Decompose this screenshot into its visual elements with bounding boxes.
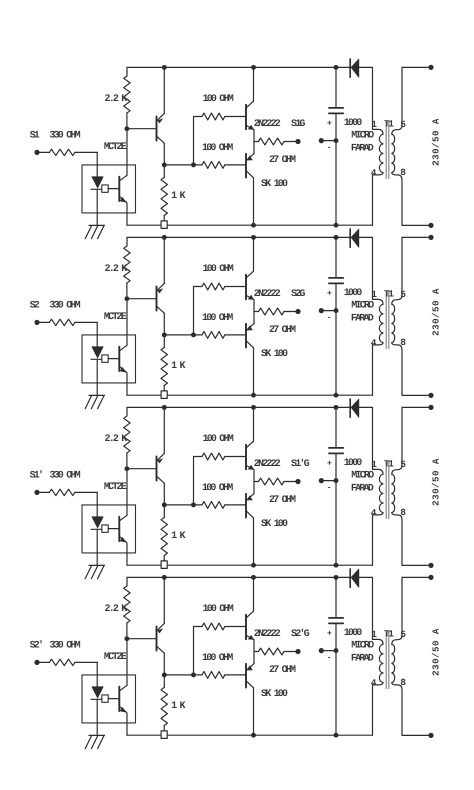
wire: base node to driver transistor row 1 bbox=[127, 128, 156, 130]
junction: 100 OHM branch split row 1 bbox=[191, 162, 196, 167]
transformer T1 row 3 bbox=[371, 407, 406, 565]
wire: emitter join 2N2222/SK100 row 4 bbox=[253, 640, 255, 664]
node: driver collector / 1K / 100 OHM row 2 bbox=[162, 332, 167, 337]
node: secondary bottom terminal row 3 bbox=[428, 563, 433, 568]
svg-text:FARAD: FARAD bbox=[351, 143, 374, 154]
wire: secondary pin 8 stub to terminal row 3 bbox=[402, 564, 429, 566]
node: capacitor negative tap terminal row 1 bbox=[334, 138, 339, 143]
wire: opto collector to node row 1 bbox=[126, 129, 128, 176]
wire: emitter join 2N2222/SK100 row 3 bbox=[253, 470, 255, 494]
svg-text:100 OHM: 100 OHM bbox=[202, 653, 233, 664]
wire: driver emitter to top rail row 1 bbox=[163, 67, 165, 113]
wire: +V top rail row 2 bbox=[127, 236, 350, 238]
ground (LED cathode) row 1 bbox=[85, 225, 104, 238]
wire: common bottom rail row 1 bbox=[127, 224, 373, 226]
svg-text:1000: 1000 bbox=[344, 458, 363, 469]
transistor Q4a PNP driver row 4 bbox=[157, 623, 165, 653]
resistor 100 OHM (lower) row 2 bbox=[202, 332, 225, 339]
junction: top rail / driver emitter row 4 bbox=[162, 575, 167, 580]
svg-text:100 OHM: 100 OHM bbox=[202, 143, 233, 154]
resistor 1 K row 1 bbox=[163, 165, 165, 178]
svg-text:+: + bbox=[327, 629, 332, 638]
wire: diode anode to transformer pin 1 row 2 bbox=[359, 237, 373, 299]
svg-text:FARAD: FARAD bbox=[351, 313, 374, 324]
svg-text:SK 100: SK 100 bbox=[261, 519, 288, 530]
diode D3 row 3 bbox=[350, 399, 359, 417]
optocoupler U1 MCT2E row 1 bbox=[82, 142, 136, 225]
wire: common bottom rail row 2 bbox=[127, 394, 373, 396]
svg-text:FARAD: FARAD bbox=[351, 653, 374, 664]
wire: 330 OHM to optocoupler anode row 4 bbox=[96, 662, 98, 686]
svg-text:-: - bbox=[327, 314, 332, 323]
wire: SK100 collector to bottom rail row 3 bbox=[253, 518, 255, 565]
wire: common bottom rail row 3 bbox=[127, 564, 373, 566]
svg-text:27 OHM: 27 OHM bbox=[269, 325, 296, 336]
resistor 2.2 K row 3 bbox=[126, 407, 128, 416]
wire: 2N2222 collector to top rail row 2 bbox=[253, 237, 255, 271]
node: driver collector / 1K / 100 OHM row 3 bbox=[162, 502, 167, 507]
transistor Q1a PNP driver row 1 bbox=[157, 113, 165, 143]
svg-text:1 K: 1 K bbox=[171, 531, 185, 542]
wire: secondary pin 8 stub to terminal row 2 bbox=[402, 394, 429, 396]
resistor 27 OHM row 4 bbox=[254, 651, 259, 653]
svg-text:MICRO: MICRO bbox=[351, 131, 374, 142]
wire: driver emitter to top rail row 3 bbox=[163, 407, 165, 453]
resistor 2.2 K row 4 bbox=[126, 577, 128, 586]
wire: transformer pin 4 to bottom rail row 4 bbox=[372, 685, 374, 735]
wire: secondary pin 5 stub to terminal row 1 bbox=[402, 66, 429, 68]
resistor 1 K row 2 bbox=[163, 335, 165, 348]
ground (LED cathode) row 2 bbox=[85, 395, 104, 408]
svg-text:S2': S2' bbox=[30, 640, 43, 652]
svg-text:100 OHM: 100 OHM bbox=[202, 313, 233, 324]
svg-text:2N2222: 2N2222 bbox=[254, 629, 281, 640]
wire: opto emitter to bottom rail row 4 bbox=[126, 712, 128, 735]
junction: bottom rail / capacitor row 3 bbox=[334, 563, 339, 568]
svg-text:+: + bbox=[327, 459, 332, 468]
junction: top rail / driver emitter row 1 bbox=[162, 65, 167, 70]
svg-text:100 OHM: 100 OHM bbox=[203, 264, 234, 275]
transistor Q2a PNP driver row 2 bbox=[157, 283, 165, 313]
junction: top rail / capacitor row 3 bbox=[334, 405, 339, 410]
svg-text:2.2 K: 2.2 K bbox=[105, 434, 128, 445]
wire: opto collector to node row 4 bbox=[126, 639, 128, 686]
wire: emitter join 2N2222/SK100 row 1 bbox=[253, 130, 255, 154]
connector square: 1K to bottom rail row 2 bbox=[161, 391, 167, 399]
svg-text:27 OHM: 27 OHM bbox=[269, 665, 296, 676]
svg-text:2.2 K: 2.2 K bbox=[105, 264, 128, 275]
svg-text:MCT2E: MCT2E bbox=[104, 482, 127, 493]
svg-text:230/50 A: 230/50 A bbox=[431, 628, 442, 676]
transistor 2N2222 NPN row 2 bbox=[246, 271, 254, 300]
svg-text:SK 100: SK 100 bbox=[261, 349, 288, 360]
optocoupler U4 MCT2E row 4 bbox=[82, 652, 136, 735]
junction: 100 OHM branch split row 2 bbox=[191, 332, 196, 337]
svg-text:S1': S1' bbox=[30, 470, 43, 482]
node: secondary top terminal row 3 bbox=[428, 405, 433, 410]
diode D1 row 1 bbox=[350, 59, 359, 77]
wire: diode anode to transformer pin 1 row 1 bbox=[359, 67, 373, 129]
node: base node (2.2K / opto / driver base) row 1 bbox=[124, 126, 129, 131]
node S1' input terminal row 3 bbox=[34, 490, 39, 495]
wire: driver collector down to node row 4 bbox=[163, 653, 165, 675]
wire: node to 100 OHM lower branch row 4 bbox=[164, 674, 202, 676]
resistor 1 K row 3 bbox=[163, 505, 165, 518]
node: driver collector / 1K / 100 OHM row 1 bbox=[162, 162, 167, 167]
wire: branch riser to upper 100 OHM row 3 bbox=[194, 457, 203, 505]
capacitor 1000 MICRO FARAD row 4 bbox=[327, 577, 374, 735]
resistor 330 OHM row 2 bbox=[37, 321, 49, 323]
wire: branch riser to upper 100 OHM row 2 bbox=[194, 287, 203, 335]
wire: branch riser to upper 100 OHM row 1 bbox=[194, 117, 203, 165]
wire: driver collector down to node row 3 bbox=[163, 483, 165, 505]
optocoupler U2 MCT2E row 2 bbox=[82, 312, 136, 395]
node: capacitor negative tap terminal row 2 bbox=[334, 308, 339, 313]
svg-text:MICRO: MICRO bbox=[351, 641, 374, 652]
svg-text:+: + bbox=[327, 289, 332, 298]
node: capacitor negative tap terminal row 4 bbox=[334, 648, 339, 653]
wire: secondary pin 5 stub to terminal row 3 bbox=[402, 406, 429, 408]
svg-text:-: - bbox=[327, 484, 332, 493]
transistor Q3a PNP driver row 3 bbox=[157, 453, 165, 483]
node S1G gate output terminal row 1 bbox=[295, 139, 300, 144]
wire: secondary pin 8 stub to terminal row 4 bbox=[402, 734, 429, 736]
node S2' input terminal row 4 bbox=[34, 660, 39, 665]
node: driver collector / 1K / 100 OHM row 4 bbox=[162, 672, 167, 677]
svg-text:2.2 K: 2.2 K bbox=[105, 604, 128, 615]
transistor 2N2222 NPN row 1 bbox=[246, 101, 254, 130]
junction: bottom rail / capacitor row 4 bbox=[334, 733, 339, 738]
svg-text:230/50 A: 230/50 A bbox=[431, 118, 442, 166]
svg-text:2N2222: 2N2222 bbox=[254, 119, 281, 130]
svg-text:-: - bbox=[327, 144, 332, 153]
wire: 2N2222 collector to top rail row 3 bbox=[253, 407, 255, 441]
wire: emitter join 2N2222/SK100 row 2 bbox=[253, 300, 255, 324]
transistor SK 100 PNP row 3 bbox=[246, 494, 254, 518]
svg-text:1000: 1000 bbox=[344, 118, 363, 129]
capacitor 1000 MICRO FARAD row 3 bbox=[327, 407, 374, 565]
svg-text:S2G: S2G bbox=[291, 289, 305, 300]
wire: opto emitter to bottom rail row 1 bbox=[126, 202, 128, 225]
junction: 100 OHM branch split row 4 bbox=[191, 672, 196, 677]
junction: bottom rail / capacitor row 1 bbox=[334, 223, 339, 228]
wire: diode anode to transformer pin 1 row 3 bbox=[359, 407, 373, 469]
wire: base node to driver transistor row 4 bbox=[127, 638, 156, 640]
junction: 100 OHM branch split row 3 bbox=[191, 502, 196, 507]
resistor 330 OHM row 4 bbox=[37, 661, 49, 663]
node: capacitor negative tap terminal row 3 bbox=[334, 478, 339, 483]
wire: base node to driver transistor row 3 bbox=[127, 468, 156, 470]
svg-text:1 K: 1 K bbox=[171, 361, 185, 372]
transformer T1 row 2 bbox=[371, 237, 406, 395]
wire: transformer pin 4 to bottom rail row 2 bbox=[372, 345, 374, 395]
svg-text:230/50 A: 230/50 A bbox=[431, 288, 442, 336]
svg-text:2N2222: 2N2222 bbox=[254, 459, 281, 470]
wire: branch riser to upper 100 OHM row 4 bbox=[194, 627, 203, 675]
junction: top rail / capacitor row 4 bbox=[334, 575, 339, 580]
wire: diode anode to transformer pin 1 row 4 bbox=[359, 577, 373, 639]
transformer T1 row 1 bbox=[371, 67, 406, 225]
svg-text:S2'G: S2'G bbox=[291, 628, 310, 640]
junction: top rail / 2N2222 collector row 4 bbox=[251, 575, 256, 580]
svg-text:-: - bbox=[327, 654, 332, 663]
svg-text:1000: 1000 bbox=[344, 628, 363, 639]
resistor 100 OHM (upper) row 3 bbox=[202, 453, 225, 460]
transistor 2N2222 NPN row 3 bbox=[246, 441, 254, 470]
capacitor 1000 MICRO FARAD row 2 bbox=[327, 237, 374, 395]
resistor 330 OHM row 3 bbox=[37, 491, 49, 493]
svg-text:1 K: 1 K bbox=[171, 701, 185, 712]
svg-text:1 K: 1 K bbox=[171, 191, 185, 202]
node S2 input terminal row 2 bbox=[34, 320, 39, 325]
resistor 2.2 K row 1 bbox=[126, 67, 128, 76]
resistor 100 OHM (lower) row 3 bbox=[202, 502, 225, 509]
node: secondary bottom terminal row 2 bbox=[428, 393, 433, 398]
wire: +V top rail row 1 bbox=[127, 66, 350, 68]
resistor 100 OHM (upper) row 2 bbox=[202, 283, 225, 290]
node S1'G gate output terminal row 3 bbox=[295, 479, 300, 484]
connector square: 1K to bottom rail row 3 bbox=[161, 561, 167, 569]
wire: common bottom rail row 4 bbox=[127, 734, 373, 736]
wire: 330 OHM to optocoupler anode row 1 bbox=[96, 152, 98, 176]
svg-text:MCT2E: MCT2E bbox=[104, 142, 127, 153]
junction: top rail / 2N2222 collector row 1 bbox=[251, 65, 256, 70]
svg-text:100 OHM: 100 OHM bbox=[202, 483, 233, 494]
capacitor 1000 MICRO FARAD row 1 bbox=[327, 67, 374, 225]
wire: driver emitter to top rail row 4 bbox=[163, 577, 165, 623]
node: secondary bottom terminal row 1 bbox=[428, 223, 433, 228]
resistor 100 OHM (lower) row 4 bbox=[202, 672, 225, 679]
resistor 27 OHM row 3 bbox=[254, 481, 259, 483]
node: secondary top terminal row 4 bbox=[428, 575, 433, 580]
svg-text:S1'G: S1'G bbox=[291, 458, 310, 470]
wire: +V top rail row 4 bbox=[127, 576, 350, 578]
wire: opto collector to node row 2 bbox=[126, 299, 128, 346]
svg-text:+: + bbox=[327, 119, 332, 128]
node: base node (2.2K / opto / driver base) row 3 bbox=[124, 466, 129, 471]
svg-text:330 OHM: 330 OHM bbox=[49, 471, 80, 482]
resistor 330 OHM row 1 bbox=[37, 151, 49, 153]
node S2'G gate output terminal row 4 bbox=[295, 649, 300, 654]
wire: secondary pin 5 stub to terminal row 2 bbox=[402, 236, 429, 238]
ground (LED cathode) row 3 bbox=[85, 565, 104, 578]
wire: 330 OHM to optocoupler anode row 2 bbox=[96, 322, 98, 346]
svg-text:330 OHM: 330 OHM bbox=[49, 301, 80, 312]
svg-text:27 OHM: 27 OHM bbox=[269, 155, 296, 166]
svg-text:1000: 1000 bbox=[344, 288, 363, 299]
wire: SK100 collector to bottom rail row 2 bbox=[253, 348, 255, 395]
junction: top rail / driver emitter row 2 bbox=[162, 235, 167, 240]
wire: driver collector down to node row 1 bbox=[163, 143, 165, 165]
node: secondary top terminal row 1 bbox=[428, 65, 433, 70]
node: secondary top terminal row 2 bbox=[428, 235, 433, 240]
svg-text:MICRO: MICRO bbox=[351, 301, 374, 312]
svg-text:MICRO: MICRO bbox=[351, 471, 374, 482]
wire: secondary pin 8 stub to terminal row 1 bbox=[402, 224, 429, 226]
wire: driver collector down to node row 2 bbox=[163, 313, 165, 335]
svg-text:SK 100: SK 100 bbox=[261, 689, 288, 700]
wire: transformer pin 4 to bottom rail row 1 bbox=[372, 175, 374, 225]
svg-text:230/50 A: 230/50 A bbox=[431, 458, 442, 506]
resistor 100 OHM (upper) row 4 bbox=[202, 623, 225, 630]
ground (LED cathode) row 4 bbox=[85, 735, 104, 748]
wire: 2N2222 collector to top rail row 4 bbox=[253, 577, 255, 611]
wire: secondary pin 5 stub to terminal row 4 bbox=[402, 576, 429, 578]
svg-text:27 OHM: 27 OHM bbox=[269, 495, 296, 506]
svg-text:FARAD: FARAD bbox=[351, 483, 374, 494]
transistor SK 100 PNP row 4 bbox=[246, 664, 254, 688]
resistor 100 OHM (lower) row 1 bbox=[202, 162, 225, 169]
svg-text:MCT2E: MCT2E bbox=[104, 652, 127, 663]
svg-text:330 OHM: 330 OHM bbox=[49, 641, 80, 652]
wire: opto emitter to bottom rail row 3 bbox=[126, 542, 128, 565]
junction: bottom rail / capacitor row 2 bbox=[334, 393, 339, 398]
diode D2 row 2 bbox=[350, 229, 359, 247]
wire: SK100 collector to bottom rail row 4 bbox=[253, 688, 255, 735]
optocoupler U3 MCT2E row 3 bbox=[82, 482, 136, 565]
junction: bottom rail / SK100 collector row 1 bbox=[251, 223, 256, 228]
junction: top rail / 2N2222 collector row 2 bbox=[251, 235, 256, 240]
wire: opto emitter to bottom rail row 2 bbox=[126, 372, 128, 395]
resistor 27 OHM row 1 bbox=[254, 141, 259, 143]
resistor 1 K row 4 bbox=[163, 675, 165, 688]
svg-text:2.2 K: 2.2 K bbox=[105, 94, 128, 105]
junction: bottom rail / SK100 collector row 4 bbox=[251, 733, 256, 738]
junction: bottom rail / SK100 collector row 3 bbox=[251, 563, 256, 568]
svg-text:2N2222: 2N2222 bbox=[254, 289, 281, 300]
connector square: 1K to bottom rail row 4 bbox=[161, 731, 167, 739]
wire: 2N2222 collector to top rail row 1 bbox=[253, 67, 255, 101]
junction: top rail / capacitor row 2 bbox=[334, 235, 339, 240]
svg-text:100 OHM: 100 OHM bbox=[203, 94, 234, 105]
wire: opto collector to node row 3 bbox=[126, 469, 128, 516]
node S1 input terminal row 1 bbox=[34, 150, 39, 155]
junction: top rail / capacitor row 1 bbox=[334, 65, 339, 70]
svg-text:MCT2E: MCT2E bbox=[104, 312, 127, 323]
wire: driver emitter to top rail row 2 bbox=[163, 237, 165, 283]
transistor SK 100 PNP row 2 bbox=[246, 324, 254, 348]
wire: +V top rail row 3 bbox=[127, 406, 350, 408]
wire: node to 100 OHM lower branch row 2 bbox=[164, 334, 202, 336]
resistor 100 OHM (upper) row 1 bbox=[202, 113, 225, 120]
connector square: 1K to bottom rail row 1 bbox=[161, 221, 167, 229]
wire: node to 100 OHM lower branch row 3 bbox=[164, 504, 202, 506]
svg-text:330 OHM: 330 OHM bbox=[49, 131, 80, 142]
node S2G gate output terminal row 2 bbox=[295, 309, 300, 314]
svg-text:S1G: S1G bbox=[291, 119, 305, 130]
transformer T1 row 4 bbox=[371, 577, 406, 735]
junction: top rail / 2N2222 collector row 3 bbox=[251, 405, 256, 410]
junction: bottom rail / SK100 collector row 2 bbox=[251, 393, 256, 398]
node: secondary bottom terminal row 4 bbox=[428, 733, 433, 738]
svg-text:100 OHM: 100 OHM bbox=[203, 434, 234, 445]
wire: 330 OHM to optocoupler anode row 3 bbox=[96, 492, 98, 516]
diode D4 row 4 bbox=[350, 569, 359, 587]
transistor SK 100 PNP row 1 bbox=[246, 154, 254, 178]
resistor 2.2 K row 2 bbox=[126, 237, 128, 246]
resistor 27 OHM row 2 bbox=[254, 311, 259, 313]
wire: SK100 collector to bottom rail row 1 bbox=[253, 178, 255, 225]
svg-text:SK 100: SK 100 bbox=[261, 179, 288, 190]
wire: node to 100 OHM lower branch row 1 bbox=[164, 164, 202, 166]
wire: transformer pin 4 to bottom rail row 3 bbox=[372, 515, 374, 565]
node: base node (2.2K / opto / driver base) row 4 bbox=[124, 636, 129, 641]
wire: base node to driver transistor row 2 bbox=[127, 298, 156, 300]
transistor 2N2222 NPN row 4 bbox=[246, 611, 254, 640]
node: base node (2.2K / opto / driver base) row 2 bbox=[124, 296, 129, 301]
svg-text:100 OHM: 100 OHM bbox=[203, 604, 234, 615]
junction: top rail / driver emitter row 3 bbox=[162, 405, 167, 410]
